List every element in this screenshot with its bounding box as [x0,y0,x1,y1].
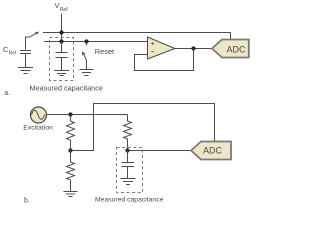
switch S1 charge switch [26,32,40,50]
wire rail line1 VRef to ADC [43,33,231,40]
dashed box measured capacitance b [117,148,143,193]
ground under Cx b [121,179,136,185]
node dot R1 bottom [68,148,72,152]
node junction dot line2 right [84,39,88,43]
node VRef label [55,1,69,13]
op-amp minus sign [151,51,154,53]
node output dot [191,46,195,50]
resistor R3 [67,151,75,192]
wire R1 junction to ADC b top [71,104,215,151]
svg-text:Excitation: Excitation [23,125,53,132]
resistor R1 [67,115,75,152]
capacitor Cx b [122,151,135,179]
ground under Cx a [54,71,69,76]
node dot excitation R1 [68,112,72,116]
svg-text:Measured capacitance: Measured capacitance [95,197,164,204]
switch S2 Reset [82,42,86,70]
wire R2 junction to ADC b input [128,150,192,152]
resistor R2 [124,115,132,152]
svg-text:b.: b. [24,198,30,205]
wire excitation to R2 top [46,114,128,116]
capacitor CRef [20,51,31,68]
node dot R2 bottom [125,148,129,152]
ground under CRef [18,68,33,74]
svg-text:ADC: ADC [203,146,223,156]
op-amp plus sign [151,42,154,45]
source excitation circle [30,107,46,123]
ADC a [212,40,249,58]
svg-text:Ref: Ref [9,50,17,56]
node junction dot line2 left [59,39,63,43]
wire op-amp output [175,48,212,50]
op-amp U1 [148,37,176,59]
capacitor CRef label [3,45,17,57]
dashed box measured capacitance a [50,38,74,81]
ADC b [191,142,231,160]
svg-text:Measured capacitance: Measured capacitance [30,84,103,93]
ground under R3 [64,192,78,197]
sine wave [31,110,44,119]
svg-text:V: V [55,1,60,10]
wire line2 to op-amp plus input [44,41,148,43]
node junction dot line1 [59,30,63,34]
wire feedback loop [135,49,194,71]
svg-text:Reset: Reset [95,47,114,56]
wire VRef vertical [61,14,63,42]
svg-text:a.: a. [4,90,10,97]
capacitor Cx a [56,42,68,71]
ground under Reset switch [80,70,94,76]
svg-text:Ref: Ref [60,7,68,13]
svg-text:ADC: ADC [226,44,246,54]
